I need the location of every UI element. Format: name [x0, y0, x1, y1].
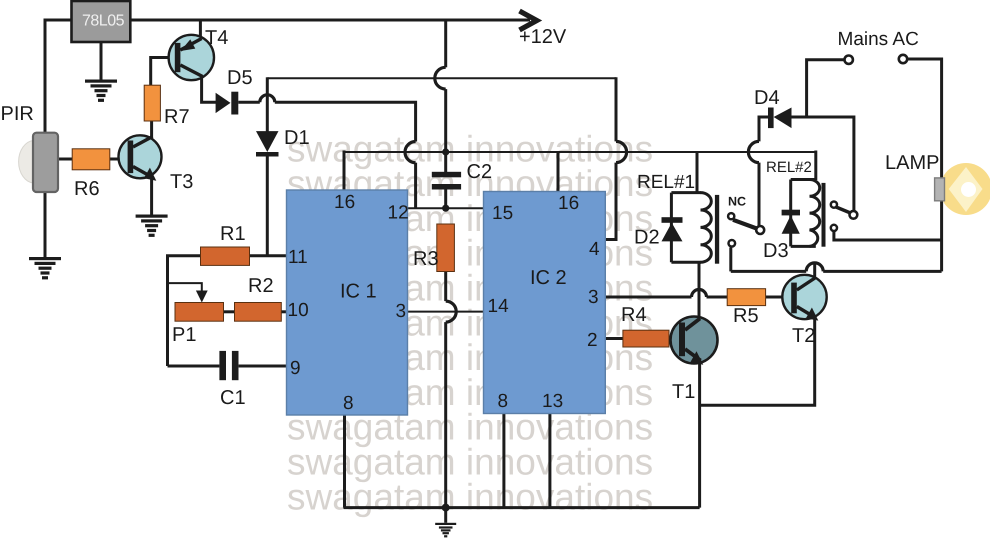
wire REL1 box top — [671, 191, 701, 194]
resistor R4 — [623, 330, 669, 347]
transistor T3 — [119, 135, 162, 181]
svg-text:IC 1: IC 1 — [340, 281, 377, 303]
wire D1 vertical lower to pin11 — [266, 156, 269, 256]
wire REL2 top feed — [814, 151, 817, 181]
relay core REL#2 — [822, 183, 826, 247]
wire node A top D1 net — [267, 77, 616, 79]
relay arm REL#1 — [733, 220, 757, 229]
diode D5 — [216, 92, 239, 115]
wire T4 base to R7 — [151, 58, 176, 86]
wire IC2 pin16 riser — [557, 152, 560, 192]
op-amp IC1 — [287, 190, 408, 415]
svg-text:R7: R7 — [164, 106, 190, 128]
wire pin12 drop lower part — [414, 163, 417, 209]
wire P1 wiper feed — [168, 283, 202, 293]
node +12V arrow — [520, 11, 537, 30]
svg-text:D2: D2 — [634, 227, 660, 249]
wire IC2 pin8 drop — [502, 414, 505, 508]
wire IC1 pin3 to IC2 pin14 — [408, 311, 484, 313]
wire NO return line right part — [823, 270, 941, 273]
svg-text:4: 4 — [589, 239, 600, 260]
diode D2 — [662, 217, 683, 241]
svg-text:R6: R6 — [74, 178, 100, 200]
wire +12V drop to C2 — [444, 89, 447, 172]
wire hop at x415 over y152 wire — [405, 142, 416, 163]
svg-text:NC: NC — [728, 195, 746, 209]
wire mains left terminal lead — [807, 60, 845, 117]
wire hop to R5 — [707, 296, 728, 299]
relay core REL#1 — [715, 195, 719, 264]
wire REL2 box bottom — [791, 245, 816, 248]
wire T4 collector to D5 — [202, 75, 217, 102]
wire R3 bottom to hop — [444, 272, 447, 302]
wire REL1 box bottom — [671, 261, 701, 264]
wire mains right terminal lead — [907, 59, 941, 178]
svg-text:3: 3 — [396, 301, 407, 322]
svg-text:R1: R1 — [220, 223, 246, 245]
svg-text:R2: R2 — [248, 275, 274, 297]
resistor R2 — [235, 303, 282, 322]
svg-text:REL#2: REL#2 — [766, 159, 812, 176]
svg-text:C2: C2 — [467, 161, 493, 183]
relay contact NC REL#1 — [728, 213, 734, 219]
wire P1 to R2 — [224, 310, 235, 313]
svg-text:D1: D1 — [284, 127, 310, 149]
svg-text:10: 10 — [288, 300, 309, 321]
wire T3 collector to R7 — [150, 121, 153, 138]
ground under 78L05 — [85, 80, 117, 102]
relay coil REL#1 — [701, 193, 712, 263]
node junction dot C2 bottom — [442, 205, 449, 212]
resistor R1 — [201, 247, 250, 265]
wire pin12 to pin15 — [408, 207, 484, 209]
wire pin4 riser x616 lower — [605, 163, 616, 240]
svg-text:T2: T2 — [792, 325, 815, 347]
transistor T1 — [671, 317, 718, 365]
relay arm REL#2 — [836, 207, 851, 213]
ground bottom center — [435, 523, 456, 538]
wire NO return line left part — [731, 270, 806, 273]
wire lamp bottom drop — [940, 201, 943, 272]
wire REL1 common riser to D4 — [759, 117, 768, 141]
wire REL2 NO contact to lamp — [834, 232, 942, 241]
wire R6 to T3 base — [110, 158, 129, 161]
svg-text:LAMP: LAMP — [885, 152, 939, 174]
wire hop pin3 over T1 collector — [692, 290, 707, 297]
wire D5 cathode to hop — [238, 101, 259, 104]
wire C1 left — [168, 365, 220, 368]
wire left supply vertical to PIR — [44, 19, 47, 134]
relay contact common REL#1 — [756, 226, 764, 234]
svg-text:P1: P1 — [172, 324, 196, 346]
resistor R5 — [727, 289, 765, 306]
wire R1 left bend — [168, 256, 201, 366]
diode D3 — [782, 210, 800, 234]
svg-text:8: 8 — [343, 393, 354, 414]
wire +12V drop upper — [444, 20, 447, 67]
relay contact common REL#2 — [850, 211, 858, 219]
capacitor C2 — [432, 172, 461, 190]
svg-text:D5: D5 — [227, 67, 253, 89]
wire D4 cathode-row to REL2 common — [792, 117, 854, 211]
transistor T4 — [169, 35, 214, 80]
wire IC2 pin2 to R4 — [605, 337, 623, 340]
svg-text:REL#1: REL#1 — [637, 172, 695, 193]
svg-text:8: 8 — [498, 391, 509, 412]
wire R2 to IC1 pin10 — [281, 310, 286, 313]
wire bottom ground stem — [444, 508, 447, 523]
svg-text:R5: R5 — [733, 305, 759, 327]
svg-text:15: 15 — [492, 203, 513, 224]
node P1 arrowhead — [196, 291, 208, 303]
wire REL1 NO contact drop — [729, 248, 732, 272]
svg-text:D4: D4 — [754, 87, 780, 109]
wire T2 collector to REL2 hop — [813, 262, 816, 276]
svg-text:16: 16 — [334, 192, 355, 213]
wire R4 to T1 base — [669, 337, 680, 340]
relay contact NO2 REL#2 — [831, 225, 837, 231]
svg-text:PIR: PIR — [1, 103, 34, 125]
wire IC2 pin13 drop — [548, 414, 551, 508]
resistor R7 — [144, 85, 160, 121]
wire C2 bottom to pin12 junction — [444, 190, 447, 209]
wire REL1 common riser lower — [758, 163, 761, 226]
wire REL1 top feed — [696, 152, 699, 193]
potentiometer P1 — [175, 303, 224, 322]
wire hop NO return over T2 collector — [806, 263, 823, 272]
wire T2 emitter return — [700, 318, 815, 405]
wire IC1 pin16 riser — [343, 151, 346, 191]
wire R3 net to ground rail — [444, 322, 447, 508]
svg-text:11: 11 — [288, 247, 308, 268]
ground under PIR — [29, 257, 61, 279]
wire D1 vertical upper — [266, 77, 269, 131]
svg-text:13: 13 — [542, 391, 563, 412]
wire IC1 pin8 to ground rail — [343, 415, 346, 508]
wire hop x616 over y152 — [616, 141, 627, 162]
svg-text:T3: T3 — [170, 171, 193, 193]
wire T1 emitter to ground rail — [698, 361, 701, 508]
svg-text:16: 16 — [558, 193, 579, 214]
svg-text:Mains AC: Mains AC — [838, 29, 919, 50]
relay coil REL#2 — [810, 180, 820, 247]
wire PIR to R6 — [57, 158, 72, 161]
wire ground rail — [344, 506, 700, 509]
resistor R6 — [72, 149, 110, 170]
wire hop +12 drop over y78 — [435, 67, 446, 89]
svg-text:78L05: 78L05 — [82, 13, 125, 30]
svg-text:R3: R3 — [413, 248, 439, 270]
wire PIR bottom to ground — [44, 192, 47, 257]
svg-text:T1: T1 — [672, 381, 695, 403]
transistor T2 — [782, 275, 826, 321]
wire REL2 box left vertical — [789, 180, 792, 247]
sensor PIR — [19, 133, 58, 192]
node junction dot ground rail — [442, 504, 450, 512]
wire IC2 pin3 to hop — [605, 296, 691, 299]
lamp glow — [940, 163, 990, 215]
wire T3 emitter to ground — [150, 176, 153, 215]
wire pin4 riser x616 upper — [615, 77, 618, 141]
wire +12V rail — [45, 19, 530, 22]
capacitor C1 — [219, 351, 238, 380]
wire hop R3 net over pin3 wire — [446, 301, 457, 322]
svg-text:C1: C1 — [220, 387, 246, 409]
wire 78L05 ground stem — [100, 42, 103, 80]
svg-text:3: 3 — [588, 287, 599, 308]
relay contact NO REL#1 — [729, 240, 736, 247]
svg-text:9: 9 — [290, 358, 301, 379]
resistor R3 — [437, 224, 455, 272]
wire REL1 coil bottom to T1 collector — [698, 262, 701, 318]
svg-text:swagatam innovations: swagatam innovations — [287, 476, 653, 517]
svg-text:12: 12 — [388, 203, 409, 224]
wire hop over D1 wire — [260, 95, 275, 102]
regulator 78L05 — [72, 1, 131, 42]
svg-text:14: 14 — [488, 296, 510, 317]
terminal mains left — [845, 56, 853, 64]
lamp base — [935, 178, 945, 201]
node junction dot C2 top — [442, 148, 449, 155]
diode D1 — [256, 131, 279, 156]
wire hop common riser over y152 — [748, 141, 759, 162]
wire C1 right to IC1 pin9 — [239, 365, 287, 368]
wire T4 emitter to rail — [199, 20, 202, 37]
ground under T3 — [136, 215, 168, 237]
wire R5 to T2 base — [766, 296, 792, 299]
diode D4 — [768, 108, 792, 129]
wire REL2 box top — [791, 178, 816, 181]
svg-text:+12V: +12V — [519, 26, 567, 48]
svg-text:D3: D3 — [763, 240, 789, 262]
op-amp IC2 — [484, 192, 606, 414]
svg-text:T4: T4 — [205, 27, 228, 49]
wire R1 right to IC1 pin11 — [250, 254, 287, 257]
svg-text:2: 2 — [587, 330, 598, 351]
terminal mains right — [899, 55, 907, 63]
svg-text:IC 2: IC 2 — [530, 267, 567, 289]
svg-text:R4: R4 — [621, 304, 647, 326]
wire REL1 box left vertical — [670, 193, 673, 263]
relay contact NO REL#2 — [831, 202, 837, 208]
wire D5 row to pin12 drop — [275, 102, 416, 141]
wire supply net y152 — [344, 151, 816, 153]
